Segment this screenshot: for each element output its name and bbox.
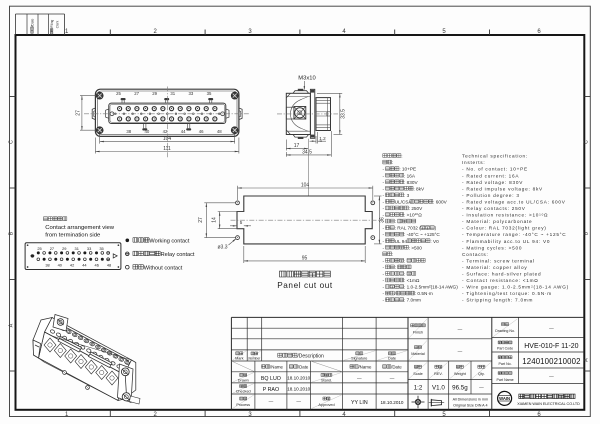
title block: projection symbol cone (431, 400, 441, 406)
svg-text:All Dimensions in mm: All Dimensions in mm (453, 398, 488, 402)
svg-text:Panel cut out: Panel cut out (277, 281, 333, 290)
svg-text:18.10.2010: 18.10.2010 (287, 387, 310, 392)
svg-text:17: 17 (294, 143, 300, 149)
title block: drawn row (233, 373, 254, 383)
svg-text:—: — (296, 399, 301, 404)
title block: part no (498, 356, 501, 359)
svg-text::: : (401, 154, 402, 159)
title block: part code (498, 341, 501, 344)
svg-text:Qty.: Qty. (478, 372, 485, 376)
isometric: right end cap (118, 360, 136, 401)
panel cut out: dimension 95 (243, 246, 245, 263)
isometric: right locking bracket with screws (118, 364, 134, 403)
svg-text:25: 25 (116, 91, 121, 96)
svg-text:- Stripping length: 7.0mm: - Stripping length: 7.0mm (462, 298, 533, 303)
svg-text:: >500: : >500 (409, 245, 423, 250)
svg-text:P RAO: P RAO (263, 387, 279, 393)
svg-text:—: — (269, 399, 274, 404)
svg-text:48: 48 (107, 262, 111, 267)
svg-text:- Contact resistance: <1mΩ: - Contact resistance: <1mΩ (462, 278, 539, 283)
svg-text:Number: Number (249, 357, 262, 361)
svg-text:42: 42 (70, 262, 74, 267)
svg-text:Mark: Mark (235, 357, 244, 361)
svg-text:—: — (458, 327, 463, 332)
svg-text:18.10.2010: 18.10.2010 (381, 400, 404, 405)
svg-text:- Rated impulse voltage: 8kV: - Rated impulse voltage: 8kV (462, 186, 543, 191)
panel cut out: mounting holes (236, 201, 240, 205)
svg-text:27: 27 (134, 91, 139, 96)
isometric: raised rails (58, 337, 82, 353)
svg-text:Without contact: Without contact (144, 265, 183, 271)
top-left revision strip table (16, 13, 65, 15)
svg-text:: 3: : 3 (404, 193, 410, 198)
svg-text:27: 27 (198, 217, 204, 223)
svg-text:38: 38 (126, 129, 131, 134)
svg-text:33: 33 (87, 246, 91, 251)
side view: extension / centerline to panel cut out (307, 139, 309, 196)
front view: top fixing pins (121, 100, 123, 103)
svg-text:: RAL 7032 (: : RAL 7032 ( (395, 226, 422, 231)
isometric: diamond lattice on front face (44, 338, 56, 352)
svg-text:27: 27 (50, 246, 54, 251)
svg-text:—: — (479, 385, 484, 390)
svg-text:Clerk: Clerk (56, 20, 60, 28)
front view: end guide holes (110, 112, 114, 116)
svg-text:/Name: /Name (358, 364, 371, 369)
left zone ticks (10, 96, 16, 98)
svg-text::: : (404, 258, 405, 263)
svg-text:/Filing: /Filing (50, 19, 54, 28)
svg-text:1.2: 1.2 (319, 136, 326, 141)
svg-text:YY LIN: YY LIN (351, 400, 368, 406)
contact arrangement: PE symbol left (31, 254, 34, 257)
title block: diagonal slashes in empty cells (231, 361, 255, 372)
svg-text:: 830V: : 830V (404, 180, 418, 185)
svg-text:/Date: /Date (31, 18, 35, 26)
svg-text:- Temperature range: -40°C ~: - Temperature range: -40°C ~ +125°C (462, 232, 566, 237)
title block: name/date sub-header (262, 365, 266, 369)
legend: without contact (126, 265, 130, 269)
svg-text:- Terminal: screw terminal: - Terminal: screw terminal (462, 258, 535, 263)
svg-text:46: 46 (95, 262, 99, 267)
side view: dimension 33.5 (317, 92, 342, 94)
front view: dimension 104 (99, 134, 101, 144)
svg-text:: V0: : V0 (430, 239, 439, 244)
side view: central screw boss (294, 107, 306, 120)
svg-text:Process: Process (236, 403, 250, 407)
svg-text:/Date: /Date (391, 364, 402, 369)
svg-text:: 250V: : 250V (409, 206, 423, 211)
panel cut out: dimension 36 (right) (374, 195, 382, 197)
svg-text:from termination side: from termination side (45, 233, 101, 239)
svg-text::: : (392, 252, 393, 257)
svg-text:35: 35 (207, 91, 212, 96)
svg-text:—: — (390, 376, 395, 381)
front view: insert body (109, 103, 226, 123)
front view: dimension 27 (left) (80, 95, 96, 97)
front view: dimension 111 (94, 138, 96, 154)
svg-text:C: C (584, 140, 590, 144)
svg-text::: : (404, 272, 405, 277)
svg-text:Part No.: Part No. (499, 362, 512, 366)
side view: funnel curves (290, 99, 301, 128)
svg-text:Contact arrangement view: Contact arrangement view (45, 225, 115, 231)
legend: relay contact (126, 252, 130, 256)
contact arrangement: contact row 1 (37, 251, 40, 254)
svg-text:WAIN: WAIN (499, 396, 510, 401)
svg-text:1:2: 1:2 (414, 384, 423, 391)
svg-text:: 8kV: : 8kV (413, 186, 425, 191)
top zone tick marks (109, 30, 111, 36)
svg-text:REV.: REV. (434, 372, 443, 376)
svg-text:31: 31 (75, 246, 79, 251)
side view: panel flange plate (310, 89, 314, 138)
svg-text:29: 29 (62, 246, 66, 251)
svg-text:/Description: /Description (297, 353, 324, 359)
svg-text:40: 40 (145, 129, 150, 134)
svg-text:- Pollution degree: 3: - Pollution degree: 3 (462, 193, 520, 198)
svg-text:1240100210002: 1240100210002 (522, 357, 580, 366)
svg-text:: 0.5N·m: : 0.5N·m (415, 291, 433, 296)
svg-text:/Name: /Name (270, 364, 283, 369)
right zone ticks (584, 96, 590, 98)
title block: vertical lines (230, 317, 232, 409)
svg-text:: 600V: : 600V (433, 199, 447, 204)
title block: scale/rev/weight/qty headers (409, 363, 427, 379)
svg-text:42: 42 (163, 129, 168, 134)
contact arrangement: orientation arrow right (113, 254, 117, 258)
svg-text:5: 5 (240, 220, 243, 225)
isometric 3D view of connector (33, 315, 140, 405)
svg-text:Stand.: Stand. (321, 379, 332, 383)
svg-text:A: A (584, 358, 590, 362)
front view: right side guide pocket (239, 108, 242, 120)
svg-text:—: — (549, 326, 554, 331)
title block: WAIN logo (498, 391, 512, 405)
side view: dimension 1.2 (315, 136, 317, 144)
svg-text:Checked: Checked (236, 390, 251, 394)
legend: working contact (126, 239, 130, 243)
svg-text:95: 95 (302, 255, 308, 261)
front view: left side guide pocket (92, 108, 95, 120)
title block: checked row (233, 384, 254, 394)
svg-text:Signature: Signature (351, 357, 367, 361)
svg-text:—: — (357, 376, 362, 381)
svg-text:- Wire gauge: 1.0-2.5mm2(18-1: - Wire gauge: 1.0-2.5mm2(18-14 AWG) (462, 285, 569, 290)
svg-text:33: 33 (189, 91, 194, 96)
svg-text:104: 104 (163, 136, 172, 142)
svg-text:- Material: copper alloy: - Material: copper alloy (462, 265, 527, 270)
title block: material cell (409, 341, 427, 361)
isometric: top-left screw bracket (53, 315, 68, 332)
svg-text:/Date: /Date (298, 364, 309, 369)
panel cut out: dimension 104 (237, 186, 239, 200)
svg-text:27: 27 (76, 110, 82, 116)
svg-text:: 1.0-2.5mm²(18-14 AWG): : 1.0-2.5mm²(18-14 AWG) (404, 285, 458, 290)
svg-text:Technical specification:: Technical specification: (462, 154, 528, 159)
svg-text:Drawn: Drawn (238, 379, 249, 383)
svg-text:Ω: Ω (418, 213, 422, 218)
svg-text:111: 111 (163, 146, 171, 152)
side view: dimension 34.5 (330, 131, 332, 157)
front view: middle small holes (114, 113, 116, 115)
title block: revision header row (233, 351, 247, 360)
svg-text:- Rated current: 16A: - Rated current: 16A (462, 173, 519, 178)
svg-text:- Rated voltage: 830V: - Rated voltage: 830V (462, 180, 523, 185)
contact arrangement: contact row 2 (37, 258, 40, 261)
svg-text:M3x10: M3x10 (298, 75, 315, 81)
svg-text:Working contact: Working contact (149, 238, 189, 244)
svg-text:: -40°C ~ +125°C: : -40°C ~ +125°C (404, 232, 440, 237)
panel cut out: centerlines (231, 219, 380, 221)
svg-text:34.5: 34.5 (302, 149, 312, 155)
svg-text:Finish: Finish (413, 330, 423, 334)
svg-text:: >10: : >10 (404, 213, 415, 218)
svg-text:Date: Date (388, 357, 396, 361)
side view: centerline (277, 113, 338, 115)
svg-text:A: A (8, 323, 14, 327)
svg-text:XIAMEN WAIN ELECTRICAL CO.LTD: XIAMEN WAIN ELECTRICAL CO.LTD (517, 402, 580, 406)
svg-text:Drawing No.: Drawing No. (495, 329, 515, 333)
svg-text:Part Code: Part Code (497, 346, 513, 350)
title block: company name (519, 394, 524, 399)
svg-text:14: 14 (212, 217, 218, 223)
svg-text:- Relay contacts: 250V: - Relay contacts: 250V (462, 206, 526, 211)
svg-text:- Insulation resistance: >101: - Insulation resistance: >1010Ω (462, 213, 548, 218)
title block: finish cell (409, 319, 427, 338)
title block: horizontal lines (231, 316, 584, 318)
svg-text:Part Name: Part Name (497, 378, 514, 382)
svg-text:- Mating cycles: >500: - Mating cycles: >500 (462, 245, 522, 250)
svg-text::: : (395, 265, 396, 270)
svg-text:Scale: Scale (413, 372, 423, 376)
svg-text::: : (395, 219, 396, 224)
front view: insert side guides (106, 109, 109, 118)
svg-text:B: B (8, 231, 14, 235)
side view: left middle box (286, 107, 294, 119)
svg-text:B: B (584, 231, 590, 235)
isometric: bottom edge line (39, 358, 119, 401)
svg-text::: : (392, 160, 393, 165)
svg-text:: <1mΩ: : <1mΩ (404, 278, 420, 283)
svg-text:Material: Material (411, 352, 425, 356)
side view: bottom clip lever (286, 130, 290, 135)
svg-text:BQ LUO: BQ LUO (261, 376, 281, 382)
svg-text:Contacts:: Contacts: (462, 252, 489, 257)
isometric: small bottom screws (63, 371, 67, 375)
svg-text:Original Size DIN A 4: Original Size DIN A 4 (453, 404, 487, 408)
svg-text:- Colour: RAL 7032(light grey: - Colour: RAL 7032(light grey) (462, 226, 547, 231)
svg-text:: 16A: : 16A (404, 173, 416, 178)
svg-text:- Surface: hard-silver plated: - Surface: hard-silver plated (462, 272, 541, 277)
technical specification: chinese column (383, 154, 387, 158)
front view: bottom fixing pins (143, 124, 145, 129)
title block: drawing no (493, 319, 517, 337)
svg-text:- Rated voltage acc.to UL/CSA: - Rated voltage acc.to UL/CSA: 600V (462, 199, 566, 204)
svg-text:Weight: Weight (454, 372, 467, 376)
panel cut out: dimension 14 (218, 211, 244, 213)
panel cut out: title chinese (280, 271, 286, 277)
title block: projection symbol crosshair (412, 401, 425, 403)
svg-text:- Tightening/test torque: 0.5: - Tightening/test torque: 0.5N·m (462, 291, 552, 296)
svg-text:35: 35 (99, 246, 103, 251)
panel cut out: dimension 5 (230, 225, 237, 227)
contact arrangement: corner screws (27, 244, 29, 246)
svg-text:48: 48 (217, 129, 222, 134)
svg-text:46: 46 (199, 129, 204, 134)
svg-text:Relay contact: Relay contact (161, 252, 195, 258)
svg-text:104: 104 (301, 182, 310, 188)
svg-text:—: — (458, 349, 463, 354)
svg-text:33.5: 33.5 (340, 109, 346, 119)
svg-text:38: 38 (45, 262, 49, 267)
svg-text:: 10+PE: : 10+PE (399, 167, 416, 172)
side view: main housing block (286, 93, 310, 134)
front view: contact row 1 (top) (118, 107, 122, 111)
title block: process/approved row (233, 395, 254, 409)
svg-text:- Material: polycarbonate: - Material: polycarbonate (462, 219, 532, 224)
svg-text:C: C (8, 140, 14, 144)
svg-text:25: 25 (37, 246, 41, 251)
svg-text:31: 31 (170, 91, 175, 96)
svg-text:- No. of contact: 10+PE: - No. of contact: 10+PE (462, 167, 528, 172)
svg-text:HVE-010-F 11-20: HVE-010-F 11-20 (524, 343, 578, 350)
front view: connector housing outline (95, 89, 239, 136)
svg-text:29: 29 (152, 91, 157, 96)
side view: top clip lever (286, 93, 290, 98)
svg-text:Approved: Approved (318, 403, 334, 407)
front view: centerlines (167, 87, 169, 159)
contact arrangement: body rect (25, 243, 121, 270)
svg-text:96.5g: 96.5g (452, 384, 468, 391)
panel cut out: dimension 27 (left) (204, 202, 235, 204)
svg-text:: 7.0mm: : 7.0mm (404, 298, 421, 303)
bottom zone tick marks (109, 410, 111, 417)
svg-text:18.10.2010: 18.10.2010 (287, 376, 310, 381)
svg-text:- Flammability acc.to UL 94:: - Flammability acc.to UL 94: V0 (462, 239, 550, 244)
svg-text:UL 94: UL 94 (395, 239, 408, 244)
svg-text:Insterts:: Insterts: (462, 160, 485, 165)
side view: dimension 17 (285, 140, 287, 151)
front view: contact row 2 (bottom) (118, 117, 122, 121)
side view: rear shell (316, 98, 331, 131)
title block: part name (498, 372, 501, 375)
svg-text:V1.0: V1.0 (432, 384, 445, 391)
contact arrangement: header text (43, 217, 47, 221)
front view: corner screws (96, 92, 103, 99)
svg-text:—: — (549, 374, 554, 379)
panel cut out: outline (237, 196, 372, 244)
svg-text:44: 44 (181, 129, 186, 134)
svg-text:ø3.3: ø3.3 (217, 245, 227, 251)
